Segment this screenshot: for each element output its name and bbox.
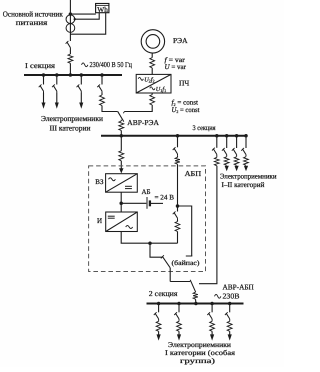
wire: output node down and right	[150, 243, 162, 257]
load feeder I-II category at x=236.6	[236, 136, 238, 148]
junction dot on bus 2 at x=229.7	[228, 302, 232, 306]
svg-text:230В: 230В	[223, 292, 240, 301]
current transformer T1 (metering loops)	[66, 15, 75, 24]
wire: internal feeder to output node	[177, 232, 179, 244]
junction dot on bus 2 at x=158.6	[157, 302, 161, 306]
wire: РЭА to fuse	[151, 53, 153, 58]
junction dot on bus 2 at x=195.9	[194, 302, 198, 306]
wire: АВР-РЭА output to bus 3	[120, 131, 122, 136]
junction dot on bus 3 at x=121.3	[120, 134, 124, 138]
energy meter Wh box	[96, 4, 109, 13]
bus: 3 секция	[101, 135, 247, 137]
ВЗ box DC mark	[125, 185, 132, 187]
wire: fuse to ПЧ box	[151, 68, 153, 75]
label ~230 В	[215, 294, 221, 298]
load feeder I-II category at x=226.7	[226, 136, 228, 148]
wire: АВР-АБП left bar	[170, 281, 190, 283]
fuse on main feeder	[68, 54, 73, 63]
svg-text:АВР-РЭА: АВР-РЭА	[127, 118, 159, 127]
fused feeder to АВР-РЭА from bus 1	[101, 75, 103, 85]
wire: meter secondary lead 2	[70, 13, 105, 35]
И box DC mark	[108, 215, 115, 217]
wire: battery right stub	[151, 202, 163, 204]
wire: meter potential lead	[70, 13, 95, 15]
junction dot on И output	[148, 241, 152, 245]
ПЧ box label bottom-right ~U1f1	[150, 87, 155, 90]
wire: ПЧ box to fuse	[151, 93, 153, 95]
svg-text:I категории (особая: I категории (особая	[165, 349, 236, 357]
svg-text:Электроприемники: Электроприемники	[41, 114, 103, 123]
wire: main feeder below switch	[69, 50, 71, 55]
АВР-АБП changeover blade	[190, 280, 196, 292]
junction dot on bus 1 at x=102.0	[100, 73, 104, 77]
net label: system voltage	[82, 63, 88, 67]
wire: main feeder from top	[69, 0, 71, 41]
АВР-РЭА transfer switch blade	[118, 111, 124, 121]
svg-text:группа): группа)	[180, 357, 216, 365]
special group load feeder at x=158.6	[158, 304, 160, 313]
load feeder with switch at x=56.8 (category III load)	[56, 75, 58, 85]
fuse between РЭА and ПЧ	[150, 58, 155, 68]
load feeder with switch at x=43.5 (category III load)	[43, 75, 45, 85]
УПС unit boundary (dashed box АБП)	[89, 166, 206, 272]
wire: bypass tee to right	[178, 206, 192, 256]
ПЧ box label top-left ~U2f2	[138, 77, 143, 80]
wire: fuse to bus 2	[195, 299, 197, 303]
junction dot on CT secondary	[74, 18, 76, 20]
rectifier-charger ВЗ box	[106, 174, 138, 193]
junction dot on bus 1 at x=43.5	[42, 73, 46, 77]
wire: bypass switch to output bar	[169, 268, 171, 282]
fuse on internal bypass feeder	[175, 222, 180, 232]
svg-text:U2 = const: U2 = const	[172, 106, 200, 114]
battery АБ plates	[146, 197, 148, 209]
wire: АВР-РЭА output	[120, 120, 122, 121]
wire: battery tap	[121, 202, 146, 204]
generator/machine РЭА (double circle)	[141, 30, 164, 53]
special group load feeder at x=229.7	[229, 304, 231, 313]
feeder from bus 3 to rectifier ВЗ (with fuse and arrow)	[120, 136, 122, 151]
svg-text:III категории: III категории	[50, 124, 91, 133]
svg-text:питания: питания	[16, 18, 48, 27]
bus: 1 секция	[24, 74, 122, 76]
junction dot on bus 3 at x=236.6	[235, 134, 239, 138]
special group load feeder at x=179	[178, 304, 180, 313]
svg-text:2 секция: 2 секция	[149, 289, 178, 298]
wire: meter secondary lead 1	[75, 13, 99, 20]
ВЗ box AC mark	[109, 178, 116, 181]
svg-text:230/400 В 50 Гц: 230/400 В 50 Гц	[90, 60, 133, 69]
wire: feeder down to АВР-РЭА contact	[102, 106, 117, 112]
fuse on АВР-РЭА output	[119, 121, 124, 131]
И box AC mark	[126, 226, 133, 229]
wire: ВЗ to И	[120, 192, 122, 212]
svg-text:И: И	[97, 217, 102, 225]
svg-text:= 24 В: = 24 В	[155, 193, 175, 201]
junction dot on main feeder	[69, 12, 73, 16]
svg-text:U1f1: U1f1	[156, 86, 166, 93]
special group load feeder at x=212.1	[211, 304, 213, 313]
direct feeder from bus 3 to АВР-АБП (switch + fuse)	[216, 136, 218, 148]
svg-text:U2f2: U2f2	[144, 76, 154, 83]
fuse on feeder to АВР-РЭА	[100, 95, 105, 106]
svg-text:(байпас): (байпас)	[172, 260, 200, 267]
disconnect switch on main feeder	[67, 42, 71, 48]
svg-text:РЭА: РЭА	[173, 36, 188, 45]
load feeder I-II category at x=246.0	[245, 136, 247, 148]
svg-text:ПЧ: ПЧ	[179, 79, 189, 88]
switch on internal bypass feeder	[177, 206, 179, 212]
junction dot battery tap	[119, 202, 123, 206]
junction dot on bus 1 at x=56.8	[55, 73, 59, 77]
junction dot on bus 3 at x=177.5	[176, 134, 180, 138]
load feeder with switch at x=81.3 (category III load)	[80, 75, 82, 85]
frequency converter ПЧ box	[136, 74, 171, 93]
АВР-РЭА right contact tick	[123, 112, 124, 114]
svg-text:Wh: Wh	[97, 5, 108, 14]
svg-text:3 секция: 3 секция	[193, 124, 217, 132]
svg-text:АВР-АБП: АВР-АБП	[223, 283, 255, 292]
wire: И output down and right	[121, 232, 177, 244]
wire: main feeder to bus 1	[69, 63, 71, 74]
junction dot on bus 1 at x=81.3	[80, 73, 84, 77]
svg-text:Электроприемники: Электроприемники	[220, 173, 277, 181]
svg-text:АБ: АБ	[142, 188, 151, 196]
bypass feeder from bus 3 into АБП (switch + fuse)	[177, 136, 179, 148]
bypass switch blade	[162, 256, 170, 268]
bypass right contact cap	[186, 255, 193, 257]
svg-text:I–II категорий: I–II категорий	[222, 181, 265, 189]
svg-text:I секция: I секция	[25, 61, 56, 70]
inverter И box	[106, 212, 138, 232]
junction dot on bus 3 at x=226.7	[225, 134, 229, 138]
junction dot on bus 2 at x=212.1	[210, 302, 214, 306]
wire: ПЧ output to АВР-РЭА right contact	[124, 105, 152, 112]
svg-text:ВЗ: ВЗ	[95, 178, 104, 186]
junction dot bypass tee	[176, 204, 180, 208]
junction dot on bus 3 at x=216.8	[215, 134, 219, 138]
fuse below ПЧ	[150, 95, 155, 105]
junction dot on bus 2 at x=179	[177, 302, 181, 306]
fuse on 2 секция feed	[193, 292, 198, 299]
svg-text:U = var: U = var	[165, 63, 187, 71]
junction dot on bus 3 at x=246.0	[244, 134, 248, 138]
junction dot on bus 1 at x=70.4	[69, 73, 73, 77]
bus: 2 секция	[147, 303, 244, 305]
svg-text:АБП: АБП	[185, 169, 202, 178]
svg-text:Электроприемники: Электроприемники	[168, 341, 231, 349]
